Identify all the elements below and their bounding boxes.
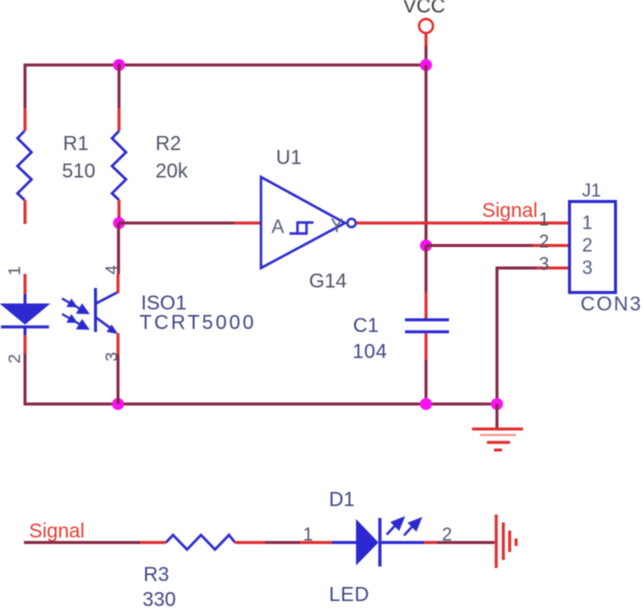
junction bottom C1 node (420, 398, 432, 410)
wire left vertical lower to rail corner (24, 354, 27, 406)
D1 light arrows (387, 518, 421, 535)
op-amp U1 triangle (schmitt buffer) (261, 177, 345, 268)
junction bottom left (ISO1 pin3 node) (112, 398, 124, 410)
svg-text:2: 2 (5, 354, 24, 363)
wire left vertical upper (24, 64, 27, 109)
ISO1 led cathode stub (24, 328, 27, 335)
wire R2 bottom to junction (118, 216, 121, 226)
svg-text:2: 2 (582, 236, 593, 257)
svg-text:104: 104 (353, 341, 388, 363)
D1 pin 2 (red) (424, 541, 437, 544)
junction top-left (113, 59, 125, 71)
svg-text:Signal: Signal (482, 200, 538, 222)
wire C1 bottom maroon (425, 360, 428, 404)
transistor base bar (94, 288, 97, 332)
wire VCC vertical middle (425, 65, 428, 246)
junction R2 bottom node (113, 217, 125, 229)
opto ISO1 : light arrows (62, 299, 88, 329)
wire R2 top stub (118, 64, 121, 109)
svg-text:VCC: VCC (403, 0, 445, 18)
diode D1 cathode bar (378, 518, 381, 567)
svg-text:R3: R3 (144, 564, 170, 586)
D1 pin 1 (red) (300, 541, 332, 544)
wire Signal net (U1 output to J1 pin1, red) (357, 222, 569, 225)
ground (earth, rotated) right (496, 515, 516, 569)
capacitor C1 plates (405, 318, 449, 321)
svg-text:1: 1 (5, 266, 24, 275)
power port VCC circle (419, 19, 433, 33)
wire pin3 maroon (497, 267, 537, 270)
svg-text:C1: C1 (353, 315, 379, 337)
resistor R2 pin top (red) (118, 108, 121, 131)
svg-text:510: 510 (62, 161, 95, 183)
wire D1 to ground (437, 541, 495, 544)
svg-text:2: 2 (539, 232, 549, 252)
svg-text:1: 1 (539, 210, 549, 230)
U1 output bubble (347, 219, 355, 227)
ISO1 led anode stub (24, 294, 27, 305)
svg-text:CON3: CON3 (581, 294, 642, 316)
wire signal to R3 (24, 541, 140, 544)
svg-text:1: 1 (582, 213, 593, 234)
resistor R2 body (112, 131, 126, 200)
svg-text:Y: Y (331, 216, 344, 237)
ISO1 led cathode bar (1, 325, 49, 328)
ISO1 led triangle (1, 304, 49, 324)
wire R3 to D1 (265, 541, 300, 544)
diode D1 triangle (356, 519, 379, 566)
wire bottom rail (24, 403, 498, 406)
wire pin3 to bottom rail (117, 354, 120, 404)
resistor R3 pin right (red) (235, 541, 265, 544)
wire top rail horizontal (24, 64, 427, 67)
junction VCC to J1 pin2 (420, 240, 432, 252)
connector J1 body (570, 202, 616, 293)
svg-text:U1: U1 (276, 147, 302, 169)
wire VCC stub (pin red) (425, 34, 428, 47)
svg-text:LED: LED (329, 584, 369, 606)
ISO1 led pin 1 (red) (24, 274, 27, 294)
wire pin2 maroon (426, 244, 533, 247)
resistor R3 pin left (red) (140, 541, 166, 544)
transistor collector (96, 292, 118, 304)
pin 4 wire (red) (117, 274, 120, 293)
ground (earth) symbol (472, 404, 523, 450)
resistor R1 pin bottom (red) (24, 200, 27, 224)
diode D1 cathode stub (382, 541, 425, 544)
schmitt hysteresis glyph (290, 223, 314, 234)
wire junction to U1 input (119, 222, 234, 225)
resistor R1 body (18, 131, 32, 200)
resistor R3 body (166, 535, 235, 550)
junction bottom ground node (491, 398, 503, 410)
wire pin3 vertical down (496, 267, 499, 405)
pin J1-2 (red) (533, 244, 568, 247)
transistor emitter (96, 318, 115, 332)
svg-text:R1: R1 (63, 133, 89, 155)
diode D1 anode stub (332, 541, 357, 544)
junction top VCC (420, 59, 432, 71)
svg-text:20k: 20k (156, 161, 189, 183)
capacitor C1 pin bottom (red) (425, 333, 428, 360)
svg-text:A: A (272, 217, 285, 238)
pin J1-3 (red) (537, 267, 568, 270)
pin U1 input (red) (234, 222, 261, 225)
wire pin4 to junction (117, 223, 120, 274)
svg-text:TCRT5000: TCRT5000 (140, 312, 257, 334)
pin 3 wire (red) (117, 333, 120, 354)
wire C1 top maroon (425, 246, 428, 293)
resistor R1 pin top (red) (24, 108, 27, 131)
wire VCC vertical to top rail (425, 46, 428, 65)
svg-text:D1: D1 (329, 489, 355, 511)
ISO1 led pin 2 (red) (24, 335, 27, 354)
svg-text:J1: J1 (582, 181, 601, 201)
svg-text:Signal: Signal (29, 521, 85, 543)
resistor R2 pin bottom (red) (118, 200, 121, 216)
transistor emitter arrowhead (107, 325, 119, 335)
svg-text:G14: G14 (309, 271, 347, 293)
svg-text:330: 330 (143, 589, 176, 609)
capacitor C1 pin top (red) (425, 292, 428, 319)
svg-text:3: 3 (582, 258, 593, 279)
svg-text:3: 3 (539, 254, 549, 274)
svg-text:R2: R2 (156, 133, 182, 155)
